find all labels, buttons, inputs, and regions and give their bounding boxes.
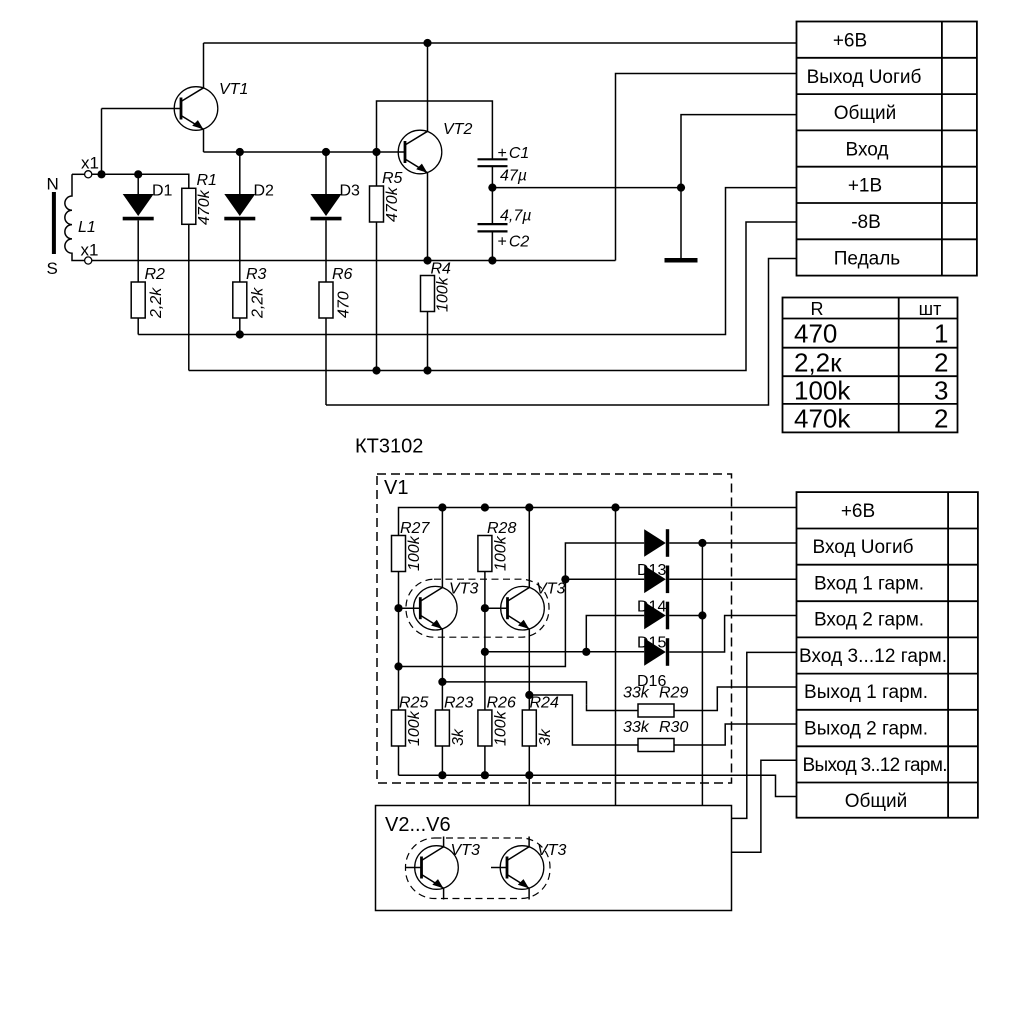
svg-text:Общий: Общий — [845, 791, 908, 812]
node dot rail VT3b collector — [525, 503, 533, 511]
wire Obshchiy row to ground — [681, 115, 797, 258]
wire R6 bottom to pedal line — [325, 318, 327, 405]
wire R23 bottom — [441, 746, 443, 775]
resistor R1 — [182, 188, 196, 224]
node dot R26 on common rail — [481, 771, 489, 779]
node dot rail riser — [611, 503, 619, 511]
wire R5 top lead — [376, 152, 378, 186]
svg-text:R26: R26 — [487, 695, 516, 712]
svg-text:Педаль: Педаль — [834, 248, 901, 269]
wire C1 bottom to mid node — [491, 166, 493, 224]
svg-text:Выход 1 гарм.: Выход 1 гарм. — [804, 682, 928, 703]
resistor R26 — [478, 710, 492, 746]
wire R2 bottom corner — [137, 318, 139, 335]
resistor R29 — [638, 704, 674, 717]
wire feedback R5 node to C1 top — [377, 101, 493, 159]
transistor VT3d — [491, 837, 544, 900]
transistor VT3b — [485, 586, 544, 630]
svg-text:x1: x1 — [81, 154, 99, 173]
table bottom connector — [797, 492, 978, 818]
wire D15 cathode to riser — [669, 615, 702, 617]
node dot VT2 emitter/R4/bottom rail — [423, 256, 431, 264]
wire VT1 base vertical to x1 node — [101, 109, 103, 175]
svg-text:N: N — [47, 175, 59, 194]
svg-text:S: S — [47, 259, 58, 278]
svg-text:D2: D2 — [254, 183, 275, 200]
diode D2 — [224, 152, 255, 282]
svg-text:+6В: +6В — [841, 501, 875, 522]
node dot R3 bottom — [236, 330, 244, 338]
node dot VT3b emitter branch — [525, 691, 533, 699]
svg-text:Вход 1 гарм.: Вход 1 гарм. — [814, 573, 924, 594]
wire R27 column down to R25 — [398, 572, 400, 711]
diode D13 — [644, 529, 667, 557]
wire R4 bottom to -8V line — [427, 312, 429, 371]
svg-text:100k: 100k — [794, 376, 851, 406]
wire R29 right to Vyhod1 row — [674, 687, 797, 711]
svg-text:100k: 100k — [406, 535, 423, 571]
svg-text:D1: D1 — [152, 183, 173, 200]
wire VT3b collector — [528, 508, 530, 588]
capacitor C2 — [478, 224, 508, 231]
svg-text:47µ: 47µ — [500, 168, 527, 185]
svg-text:КТ3102: КТ3102 — [355, 436, 423, 458]
wire base node branch to D16 — [485, 651, 644, 653]
wire riser D13/D15 down to V2 box — [701, 543, 703, 806]
node dot D14 anode junction — [561, 575, 569, 583]
svg-text:Выход Uогиб: Выход Uогиб — [807, 67, 922, 88]
svg-text:R30: R30 — [659, 719, 688, 736]
wire VT2 collector — [427, 43, 429, 131]
wire R5 bottom to -8V line — [376, 222, 378, 371]
resistor R25 — [392, 710, 406, 746]
wire VT3a emitter down to R23 — [441, 629, 443, 710]
svg-text:100k: 100k — [435, 276, 452, 312]
svg-text:Выход 3..12 гарм.: Выход 3..12 гарм. — [803, 755, 948, 776]
transistor VT3c — [406, 837, 459, 900]
svg-text:Вход 3...12 гарм.: Вход 3...12 гарм. — [799, 646, 947, 667]
resistor R23 — [435, 710, 449, 746]
terminal x1 top — [85, 171, 92, 178]
wire Vyhod Uogib riser — [616, 74, 797, 261]
resistor R27 — [392, 536, 406, 572]
svg-text:x1: x1 — [81, 241, 99, 260]
svg-text:+C1: +C1 — [498, 145, 530, 162]
svg-text:VT2: VT2 — [443, 121, 472, 138]
wire R28 column down to R26 — [484, 572, 486, 711]
wire VT3b emitter branch to R30 — [529, 695, 638, 745]
svg-text:VT3: VT3 — [451, 842, 480, 859]
node dot R28 column D15/D16 branch — [481, 648, 489, 656]
wire bottom rail — [92, 260, 616, 262]
magnet bar N-S — [52, 192, 56, 254]
svg-text:2: 2 — [934, 404, 948, 434]
capacitor C1 — [478, 159, 508, 166]
node dot R5 top — [372, 148, 380, 156]
svg-text:VT3: VT3 — [537, 842, 566, 859]
table top connector — [797, 22, 977, 276]
wire R26 bottom — [484, 746, 486, 775]
svg-text:R23: R23 — [444, 695, 473, 712]
table R quantity — [783, 298, 958, 433]
wire V1 +6V rail — [399, 508, 797, 536]
svg-text:R28: R28 — [487, 520, 516, 537]
resistor R30 — [638, 739, 674, 752]
svg-text:R25: R25 — [399, 695, 428, 712]
wire D14 anode stub — [565, 578, 644, 580]
transistor VT1 — [174, 87, 218, 131]
svg-text:470k: 470k — [196, 189, 213, 225]
svg-text:Выход 2 гарм.: Выход 2 гарм. — [804, 719, 928, 740]
transistor VT3a — [399, 586, 458, 630]
wire VT3a emitter branch to R29 — [442, 682, 586, 704]
resistor R4 — [421, 276, 435, 312]
terminal x1 bottom — [85, 257, 92, 264]
node dot R23 on common rail — [438, 771, 446, 779]
wire +1V line — [138, 188, 796, 335]
node dot R5 lead on -8V line — [372, 366, 380, 374]
node dot R24 on common rail — [525, 771, 533, 779]
wire R30 right to Vyhod2 row — [674, 724, 797, 745]
node dot VT3a base — [394, 604, 402, 612]
svg-text:1: 1 — [934, 319, 948, 349]
resistor R5 — [370, 186, 384, 222]
svg-text:D3: D3 — [340, 183, 361, 200]
wire VT1 emitter down — [203, 129, 205, 152]
svg-text:+C2: +C2 — [498, 234, 530, 251]
node dot ground column/mid line — [677, 184, 685, 192]
svg-text:33k: 33k — [623, 685, 650, 702]
diode D1 — [123, 174, 154, 282]
node dot D13 cathode riser — [698, 539, 706, 547]
svg-text:Вход: Вход — [846, 139, 889, 160]
wire riser +6V down to V2 box — [615, 508, 617, 806]
svg-text:Общий: Общий — [834, 103, 897, 124]
svg-text:4,7µ: 4,7µ — [500, 208, 531, 225]
svg-text:R2: R2 — [145, 266, 166, 283]
diode D15 — [644, 602, 667, 630]
node dot C2 bottom/rail — [488, 256, 496, 264]
node dot D1 anode — [134, 170, 142, 178]
node dot rail VT3a collector — [438, 503, 446, 511]
module V1 dashed box — [377, 474, 732, 783]
wire R29 left lead — [587, 704, 639, 710]
svg-text:+1В: +1В — [848, 176, 882, 197]
wire D15 anode stub — [586, 616, 644, 652]
svg-text:470k: 470k — [384, 186, 401, 222]
svg-text:шт: шт — [919, 299, 942, 319]
svg-text:470: 470 — [336, 291, 353, 318]
node dot D15 cathode riser — [698, 611, 706, 619]
svg-text:VT3: VT3 — [536, 581, 565, 598]
diode D14 — [644, 566, 667, 594]
svg-text:VT3: VT3 — [449, 581, 478, 598]
svg-text:3: 3 — [934, 376, 948, 406]
wire Vyhod 3-12 row to V2 box — [732, 760, 797, 852]
wire top +6V rail — [204, 42, 797, 44]
node dot R27 column D13/D14 branch — [394, 662, 402, 670]
svg-text:R3: R3 — [246, 266, 267, 283]
wire base node branch to D13/D14 — [399, 543, 645, 667]
wire VT3a collector — [441, 508, 443, 588]
node dot x1/VT1 base — [97, 170, 105, 178]
resistor R3 — [233, 282, 247, 318]
resistor R6 — [319, 282, 333, 318]
svg-text:2: 2 — [934, 348, 948, 378]
node dot rail R28 — [481, 503, 489, 511]
dashed pair outline V1 transistors — [406, 579, 549, 637]
svg-text:2,2к: 2,2к — [794, 348, 842, 378]
wire x1 top to R1 corner — [92, 174, 189, 188]
svg-text:V2...V6: V2...V6 — [385, 814, 451, 836]
node dot rail/VT2 collector — [423, 39, 431, 47]
wire Vhod 3-12 row to V2 box — [732, 652, 797, 818]
node dot VT3a emitter branch — [438, 678, 446, 686]
svg-text:100k: 100k — [406, 710, 423, 746]
svg-text:100k: 100k — [493, 535, 510, 571]
ground symbol — [665, 258, 698, 263]
wire emitter rail to VT2 base — [204, 151, 406, 153]
node dot C1/C2 midpoint — [488, 184, 496, 192]
diode D16 — [644, 638, 667, 666]
wire VT2 emitter down — [427, 173, 429, 261]
svg-text:R6: R6 — [332, 266, 353, 283]
node dot D3 anode — [322, 148, 330, 156]
resistor R24 — [522, 710, 536, 746]
dashed pair outline V2 transistors — [406, 838, 551, 899]
wire R3 bottom — [239, 318, 241, 335]
svg-text:33k: 33k — [623, 719, 650, 736]
svg-text:V1: V1 — [384, 477, 408, 499]
svg-text:100k: 100k — [493, 710, 510, 746]
svg-text:2,2k: 2,2k — [250, 287, 267, 319]
svg-text:R4: R4 — [431, 261, 452, 278]
svg-text:R5: R5 — [382, 170, 403, 187]
wire VT1 base lead horizontal — [102, 108, 182, 110]
transistor VT2 — [398, 130, 442, 174]
svg-text:2,2k: 2,2k — [148, 287, 165, 319]
inductor L1 — [65, 174, 85, 260]
wire VT3b emitter down to R24 — [528, 629, 530, 710]
wire VT1 collector to rail — [203, 43, 205, 88]
svg-text:R1: R1 — [197, 172, 217, 189]
module V2...V6 box — [376, 806, 732, 911]
wire L1 top lead — [72, 173, 85, 175]
svg-text:Вход 2 гарм.: Вход 2 гарм. — [814, 610, 924, 631]
svg-text:+6В: +6В — [833, 31, 867, 52]
wire common rail V1 to Obshchiy row — [399, 775, 797, 796]
wire pedal line — [326, 259, 797, 406]
svg-text:470k: 470k — [794, 404, 851, 434]
resistor R2 — [131, 282, 145, 318]
svg-text:Вход Uогиб: Вход Uогиб — [813, 537, 914, 558]
node dot VT3b base — [481, 604, 489, 612]
svg-text:3k: 3k — [450, 728, 467, 746]
wire D14 cathode to table — [669, 578, 796, 580]
node dot R4 lead on -8V line — [423, 366, 431, 374]
wire D16 cathode to Vhod2 row — [669, 616, 796, 653]
wire -8V line — [189, 222, 797, 371]
wire R25 bottom — [398, 746, 400, 775]
svg-text:L1: L1 — [78, 219, 96, 236]
svg-text:R29: R29 — [659, 685, 688, 702]
svg-text:470: 470 — [794, 319, 837, 349]
node dot D15 branch junction — [582, 648, 590, 656]
node dot D2 anode — [236, 148, 244, 156]
diode D3 — [311, 152, 342, 282]
wire C2 bottom to rail — [491, 231, 493, 260]
svg-text:R24: R24 — [530, 695, 559, 712]
svg-text:VT1: VT1 — [219, 81, 248, 98]
svg-text:R27: R27 — [400, 520, 430, 537]
svg-text:3k: 3k — [537, 728, 554, 746]
resistor R28 — [478, 536, 492, 572]
svg-text:R: R — [811, 299, 824, 319]
wire R1 bottom to -8V line — [188, 224, 190, 370]
svg-text:-8В: -8В — [851, 212, 881, 233]
wire mid node to ground column — [492, 187, 681, 189]
wire R24 bottom through rail into V2 box — [528, 746, 530, 806]
wire D13 cathode to table — [669, 542, 796, 544]
